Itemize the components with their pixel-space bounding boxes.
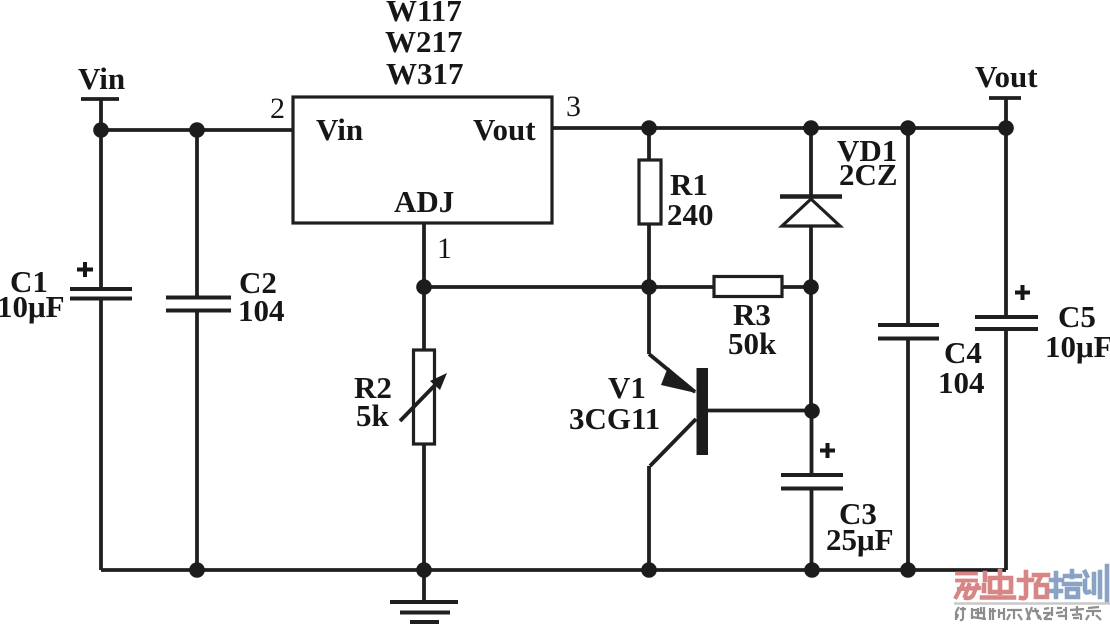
svg-text:104: 104 xyxy=(938,365,985,400)
capacitor C1 xyxy=(70,289,132,299)
wire bottom rail xyxy=(101,568,1006,572)
svg-text:Vout: Vout xyxy=(473,112,536,147)
svg-text:10μF: 10μF xyxy=(1045,329,1110,364)
svg-text:Vin: Vin xyxy=(78,61,125,96)
plus sign C3 xyxy=(820,443,835,458)
wire IC pin3 to Vout rail xyxy=(552,126,1006,130)
watermark logo peixun blue characters xyxy=(1051,566,1107,601)
wire top rail left (Vin node to IC pin2) xyxy=(101,128,293,132)
svg-text:3CG11: 3CG11 xyxy=(569,401,660,436)
svg-text:10μF: 10μF xyxy=(0,289,65,324)
svg-text:W317: W317 xyxy=(386,56,464,91)
svg-text:W217: W217 xyxy=(385,24,463,59)
capacitor C4 branch xyxy=(906,128,910,570)
svg-text:ADJ: ADJ xyxy=(394,184,454,219)
svg-text:5k: 5k xyxy=(356,398,390,433)
transistor Q1 V1 3CG11 xyxy=(649,287,812,570)
svg-text:104: 104 xyxy=(238,293,285,328)
capacitor C5 branch xyxy=(1004,128,1008,570)
plus sign C5 xyxy=(1015,285,1030,300)
watermark divider line xyxy=(954,602,1110,605)
node junction dots xyxy=(93,120,1014,578)
capacitor C2 xyxy=(166,298,231,311)
wire C1 branch xyxy=(99,130,103,570)
wire R3 right to VD1 node xyxy=(782,285,811,289)
resistor R1 xyxy=(639,128,661,287)
svg-text:Vin: Vin xyxy=(316,112,363,147)
svg-text:240: 240 xyxy=(667,197,714,232)
capacitor C5 xyxy=(975,317,1038,329)
op-amp U1 regulator box W317 xyxy=(293,97,552,223)
capacitor C4 xyxy=(878,325,939,339)
svg-text:Vout: Vout xyxy=(975,59,1038,94)
svg-text:2: 2 xyxy=(270,92,285,125)
svg-text:1: 1 xyxy=(437,232,452,265)
diode VD1 zener 2CZ xyxy=(780,128,842,287)
svg-text:25μF: 25μF xyxy=(826,522,894,557)
resistor R2 (potentiometer) xyxy=(400,287,447,570)
node Vout terminal xyxy=(989,98,1021,128)
wire VD1 node to base node to C3 xyxy=(809,287,813,570)
capacitor C3 xyxy=(781,475,843,489)
plus sign C1 xyxy=(77,262,93,277)
svg-text:V1: V1 xyxy=(608,370,646,405)
watermark logo yidituo pink characters xyxy=(956,571,1048,598)
resistor R3 xyxy=(714,277,782,297)
svg-text:2CZ: 2CZ xyxy=(839,157,898,192)
watermark slogan gray characters xyxy=(956,606,1101,620)
wire ADJ pin 1 xyxy=(422,223,426,287)
node Vin terminal xyxy=(81,99,119,130)
svg-text:50k: 50k xyxy=(728,326,777,361)
svg-text:3: 3 xyxy=(566,90,581,123)
wire C2 branch xyxy=(195,130,199,570)
wire adjust node line xyxy=(424,285,714,289)
ground xyxy=(390,570,458,622)
